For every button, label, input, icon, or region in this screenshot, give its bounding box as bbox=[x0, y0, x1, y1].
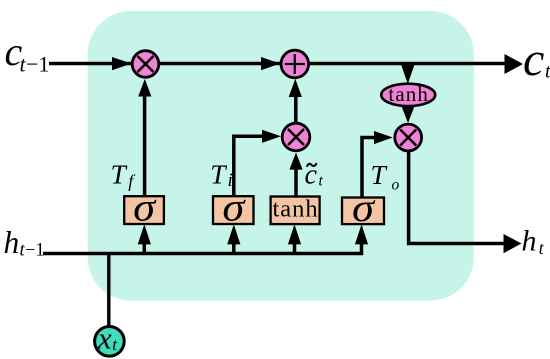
wire h_t output from multiply node M3 bbox=[409, 150, 522, 253]
svg-text:T: T bbox=[371, 159, 388, 190]
multiply node M1 (forget gate) bbox=[132, 51, 159, 78]
wire drop to x_t input bbox=[107, 254, 110, 328]
wire stub and arrowhead into tanh box bbox=[288, 224, 301, 253]
cell body background bbox=[88, 11, 474, 301]
arrowhead down into tanh ellipse bbox=[401, 64, 415, 84]
wire stub and arrowhead into sigma box S2 bbox=[227, 224, 240, 253]
svg-text:t: t bbox=[545, 61, 550, 83]
svg-text:c: c bbox=[523, 33, 544, 86]
label h_{t-1} bbox=[4, 225, 45, 261]
svg-text:t: t bbox=[319, 173, 324, 190]
svg-text:x: x bbox=[97, 320, 112, 355]
svg-text:σ: σ bbox=[222, 185, 245, 230]
label T_i bbox=[210, 159, 232, 191]
arrowhead into multiply node M1 bbox=[112, 57, 132, 70]
svg-text:h: h bbox=[522, 225, 537, 258]
arrowhead from tanh ellipse into multiply node M3 bbox=[401, 106, 414, 123]
svg-text:tanh: tanh bbox=[273, 196, 319, 223]
wire c main line bbox=[49, 62, 506, 66]
label c_t bbox=[523, 33, 550, 86]
multiply node M3 (output gate) bbox=[395, 124, 422, 151]
label T_f bbox=[111, 159, 137, 191]
svg-text:−1: −1 bbox=[25, 241, 45, 261]
sigma box S2 (input gate) bbox=[213, 185, 254, 230]
tanh box bbox=[271, 196, 320, 225]
arrowhead into add node A1 bbox=[261, 57, 280, 70]
label c~_t bbox=[305, 159, 324, 191]
svg-text:o: o bbox=[392, 177, 400, 194]
input node x_t bbox=[95, 320, 125, 356]
wire from sigma box S1 up to multiply node M1 bbox=[138, 79, 151, 196]
svg-text:i: i bbox=[228, 170, 233, 191]
sigma box S1 (forget gate) bbox=[124, 185, 164, 230]
svg-text:h: h bbox=[4, 225, 20, 260]
wire h main line bbox=[43, 242, 362, 254]
arrowhead into sigma box S3 bbox=[355, 224, 368, 244]
label c_{t-1} bbox=[5, 29, 50, 77]
svg-text:t: t bbox=[539, 238, 545, 258]
arrowhead output c_t bbox=[505, 54, 524, 74]
svg-text:T: T bbox=[111, 159, 128, 190]
wire elbow from sigma box S2 to multiply node M2 bbox=[234, 130, 281, 197]
svg-text:σ: σ bbox=[352, 185, 375, 230]
wire from multiply node M2 up to add node A1 bbox=[289, 79, 302, 123]
label T_o bbox=[371, 159, 400, 194]
tanh ellipse bbox=[381, 82, 435, 106]
wire from tanh box up to multiply node M2 bbox=[289, 153, 302, 198]
multiply node M2 (input gate) bbox=[282, 123, 310, 151]
wire elbow from sigma box S3 to multiply node M3 bbox=[362, 131, 393, 198]
svg-text:T: T bbox=[210, 159, 227, 190]
svg-text:−1: −1 bbox=[26, 52, 49, 77]
wire stub and arrowhead into sigma box S1 bbox=[138, 224, 151, 253]
add node A1 bbox=[281, 50, 309, 78]
svg-text:tanh: tanh bbox=[388, 82, 429, 106]
label h_t bbox=[522, 225, 545, 258]
svg-text:σ: σ bbox=[133, 185, 156, 230]
sigma box S3 (output gate) bbox=[342, 185, 384, 230]
